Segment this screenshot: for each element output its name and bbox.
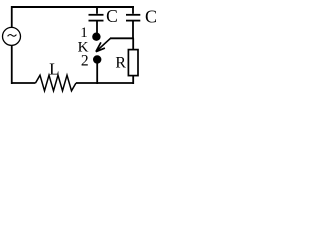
svg-text:C: C	[145, 6, 157, 26]
AC source tilde symbol	[8, 35, 17, 37]
switch contact node 2	[93, 55, 101, 63]
capacitor C1 plates	[89, 15, 104, 21]
wire bottom rail right segment	[76, 82, 134, 84]
capacitor C2 bottom stub	[132, 21, 134, 39]
wire top rail	[11, 6, 134, 8]
wire bottom rail left segment	[11, 82, 36, 84]
switch contact node 1	[92, 33, 100, 41]
svg-text:R: R	[115, 55, 126, 72]
capacitor C2 plates	[126, 15, 140, 21]
wire switch pivot horizontal	[110, 37, 134, 39]
wire resistor top stub	[132, 38, 134, 49]
svg-text:L: L	[49, 60, 59, 79]
svg-text:C: C	[106, 6, 118, 26]
capacitor C1 bottom stub	[96, 21, 98, 33]
resistor R box	[128, 50, 138, 76]
AC source G1 circle	[3, 27, 21, 45]
capacitor C2 top stub	[132, 7, 134, 14]
wire resistor bottom stub	[132, 76, 134, 84]
switch K arm with arrowhead	[96, 38, 111, 51]
svg-text:2: 2	[81, 52, 89, 69]
wire left rail upper	[11, 6, 13, 28]
wire from node 2 down to bottom rail	[96, 63, 98, 84]
inductor L zigzag	[36, 75, 77, 91]
wire left rail lower	[11, 45, 13, 84]
capacitor C1 top stub	[96, 7, 98, 14]
